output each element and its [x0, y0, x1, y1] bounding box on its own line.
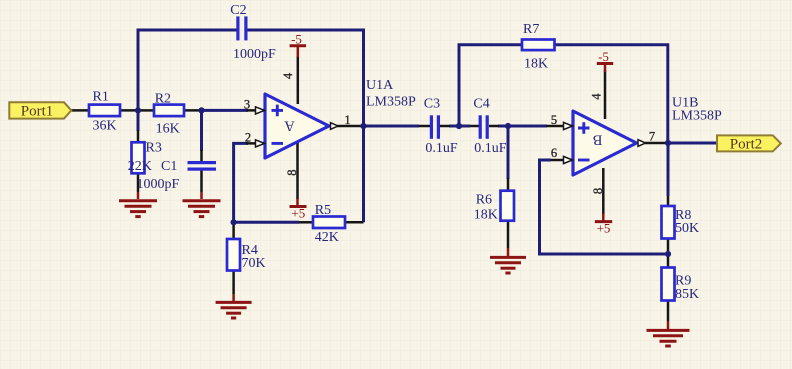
- wire: output1 to C3: [364, 125, 420, 128]
- pin: R6 top: [507, 178, 510, 191]
- svg-text:18K: 18K: [524, 57, 548, 72]
- resistor R3: [132, 142, 145, 173]
- svg-text:8: 8: [591, 188, 605, 194]
- svg-text:0.1uF: 0.1uF: [425, 141, 458, 156]
- pin: R9 bottom: [667, 301, 670, 322]
- svg-text:18K: 18K: [474, 207, 498, 222]
- port Port2: [717, 135, 781, 152]
- node J3: [456, 123, 462, 129]
- capacitor C4: [479, 115, 482, 139]
- wire: C2 right to feedback vertical down to R5 right: [248, 30, 364, 222]
- svg-text:85K: 85K: [675, 287, 699, 302]
- svg-text:+5: +5: [291, 206, 305, 221]
- svg-text:5: 5: [551, 113, 557, 127]
- pin: U1A pin 4: [297, 56, 300, 104]
- power +5 (U1B pin8): [595, 214, 612, 222]
- svg-text:R2: R2: [155, 91, 171, 106]
- node R8/R9: [665, 251, 671, 257]
- svg-text:R6: R6: [476, 193, 492, 208]
- node J1: [135, 107, 141, 113]
- pin 1 arrow: [331, 123, 339, 130]
- pin: R2 to J2: [184, 109, 202, 112]
- resistor R2: [154, 105, 184, 117]
- node out1: [360, 123, 366, 129]
- wire: J3 up to R7 rail: [459, 45, 522, 126]
- resistor R9: [662, 268, 675, 301]
- svg-text:LM358P: LM358P: [672, 108, 722, 123]
- wire: pin2 elbow down and right to R5: [234, 143, 299, 222]
- svg-text:50K: 50K: [675, 221, 699, 236]
- port Port1: [9, 102, 71, 119]
- svg-text:4: 4: [281, 72, 295, 79]
- wire: C3 right to J3: [449, 125, 459, 128]
- svg-text:C2: C2: [230, 3, 246, 18]
- node J4: [505, 123, 511, 129]
- svg-text:2: 2: [245, 130, 251, 144]
- wire: J1 down to R3: [137, 110, 140, 131]
- CAPACITOR PLATES: [188, 16, 489, 170]
- pin: U1B pin 4: [604, 70, 607, 119]
- pin: J1 to R2: [138, 109, 154, 112]
- pin: U1B pin 8: [602, 168, 605, 214]
- svg-text:C4: C4: [473, 96, 489, 111]
- wire: J4 to pin5: [508, 125, 547, 128]
- pin 2 arrow: [256, 140, 265, 147]
- power +5 (U1A pin8): [290, 199, 307, 207]
- pin: U1A output pin 1: [337, 125, 364, 128]
- pin 5 arrow: [564, 122, 573, 129]
- pin: C4 left: [470, 125, 479, 128]
- wire: J1 up to C2 top rail: [138, 30, 237, 110]
- pin: C3 right: [440, 125, 450, 128]
- ground under R6: [490, 248, 526, 273]
- op-amp U1A: [265, 94, 329, 158]
- pin: R4 bottom: [232, 271, 235, 295]
- pin: R3 bottom to ground: [137, 173, 140, 192]
- GROUND SYMBOLS: [119, 192, 690, 346]
- svg-text:Port2: Port2: [730, 136, 763, 152]
- svg-text:0.1uF: 0.1uF: [474, 141, 507, 156]
- POWER PORTS: [290, 32, 614, 236]
- power -5 (U1A pin4): [290, 46, 306, 57]
- pin: R5 right: [345, 221, 364, 224]
- pin: C1 bottom to ground: [200, 171, 203, 193]
- pin 3 arrow: [256, 107, 265, 114]
- resistor R7: [522, 40, 555, 51]
- svg-text:-5: -5: [598, 49, 609, 64]
- svg-text:R7: R7: [523, 22, 539, 37]
- capacitor C2: [236, 16, 239, 40]
- svg-text:6: 6: [551, 146, 557, 160]
- svg-text:B: B: [593, 132, 603, 148]
- pin: op-amp U1A pin 2: [246, 142, 264, 145]
- ground under C1: [183, 192, 221, 217]
- svg-text:U1A: U1A: [366, 78, 394, 93]
- svg-text:-5: -5: [291, 32, 302, 47]
- capacitor C3: [430, 115, 433, 139]
- capacitor C1: [188, 161, 217, 164]
- wire: pin6 elbow down and right to J6: [540, 160, 669, 254]
- wire: C4 right to J4: [498, 125, 508, 128]
- svg-text:+5: +5: [597, 221, 611, 236]
- svg-text:7: 7: [649, 130, 655, 144]
- svg-text:42K: 42K: [315, 230, 339, 245]
- wire: R7 right rail down to J5: [555, 45, 668, 143]
- svg-text:36K: 36K: [93, 119, 117, 134]
- pin: op-amp U1A pin 3: [246, 109, 264, 112]
- wire: J5 to Port2: [668, 142, 717, 145]
- svg-text:R3: R3: [146, 141, 162, 156]
- svg-text:R1: R1: [93, 90, 109, 105]
- pin: U1A pin 8: [296, 140, 299, 199]
- pin: R9 top: [667, 254, 670, 268]
- RESISTOR BODIES: [89, 40, 675, 301]
- svg-text:C1: C1: [161, 159, 177, 174]
- svg-text:A: A: [284, 118, 295, 134]
- wire: J3 to C4: [459, 125, 470, 128]
- svg-text:R5: R5: [315, 203, 331, 218]
- svg-text:LM358P: LM358P: [366, 94, 416, 109]
- pin: R1 to J1: [120, 109, 138, 112]
- pin: R8 top: [667, 196, 670, 206]
- pin: C4 right: [489, 125, 499, 128]
- svg-text:4: 4: [590, 93, 604, 100]
- pin: R5 left: [299, 221, 313, 224]
- ground under R4: [216, 294, 252, 318]
- pin: U1B output pin 7: [645, 142, 668, 145]
- resistor R4: [227, 239, 240, 271]
- power -5 (U1B pin4): [597, 64, 613, 73]
- pin: C3 left: [419, 125, 430, 128]
- node out2: [665, 140, 671, 146]
- svg-text:1000pF: 1000pF: [137, 177, 180, 192]
- PIN ARROWS (open triangles): [256, 107, 646, 164]
- svg-text:8: 8: [285, 169, 299, 175]
- node J2: [198, 107, 204, 113]
- pin 6 arrow: [564, 156, 573, 163]
- ground under R9: [647, 321, 690, 346]
- PIN NUMBERS: [244, 72, 655, 194]
- svg-text:1000pF: 1000pF: [233, 47, 276, 62]
- pin: R4 top: [232, 222, 235, 239]
- pin 7 arrow: [638, 140, 646, 147]
- svg-text:3: 3: [244, 97, 250, 111]
- pin: C1 top: [200, 150, 203, 161]
- pin: U1B pin 6: [551, 159, 572, 162]
- resistor R6: [501, 191, 515, 221]
- svg-text:22K: 22K: [128, 159, 152, 174]
- op-amp U1B: [573, 111, 637, 175]
- pin: R6 bottom: [507, 221, 510, 248]
- wire: J2 down to C1: [200, 110, 203, 151]
- resistor R5: [313, 217, 345, 229]
- node R4/R5: [231, 219, 237, 225]
- pin: R8 bottom to J6: [667, 239, 670, 255]
- svg-text:1: 1: [344, 113, 350, 127]
- svg-text:16K: 16K: [156, 122, 180, 137]
- svg-text:70K: 70K: [242, 256, 266, 271]
- wire: J5 down to R8: [667, 143, 670, 196]
- resistor R8: [662, 206, 675, 239]
- resistor R1: [89, 105, 120, 117]
- svg-text:Port1: Port1: [21, 103, 54, 119]
- wire: J4 down to R6: [507, 126, 510, 179]
- svg-text:C3: C3: [424, 96, 440, 111]
- pin: Port1 to R1: [71, 109, 89, 112]
- pin: R3 top: [137, 130, 140, 142]
- pin: U1B pin 5: [546, 125, 572, 128]
- wire: J2 to pin3: [202, 109, 249, 112]
- PINS (black): [71, 56, 668, 321]
- ground under R3: [119, 192, 157, 217]
